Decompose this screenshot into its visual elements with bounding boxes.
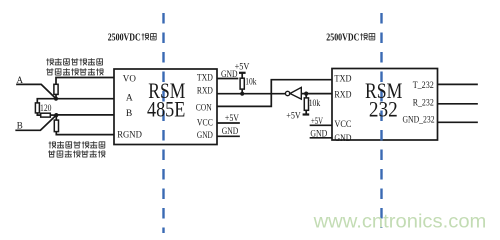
svg-text:+5V: +5V [235, 62, 250, 72]
svg-text:A: A [126, 93, 133, 103]
wire U1 GND stub [217, 135, 239, 137]
svg-text:R_232: R_232 [413, 99, 434, 109]
resistor R3 10k pullup [304, 98, 308, 110]
wire node B to lower bias resistor [55, 115, 57, 120]
note text bottom-left line2 择偏置电阻大小 [48, 150, 105, 157]
svg-text:10k: 10k [309, 98, 321, 108]
wire terminal A lead [17, 84, 56, 98]
wire 120 resistor bottom to series resistor [37, 113, 40, 115]
wire terminal B lead [16, 115, 56, 130]
wire bias resistor to node A junction [55, 94, 57, 98]
isolation dashed line right [380, 13, 382, 228]
resistor 120 termination [35, 103, 39, 113]
svg-text:GND_232: GND_232 [403, 116, 435, 126]
svg-text:RXD: RXD [334, 90, 351, 100]
wire +5V bar to 10k pullup R2 [241, 73, 243, 78]
wire RXD junction to pullup R3 [305, 94, 307, 98]
wire node A to 120 resistor top [37, 99, 56, 103]
svg-text:CON: CON [196, 104, 212, 114]
node A junction dot [54, 97, 58, 101]
svg-text:GND: GND [197, 131, 213, 141]
wire U2 VCC stub to +5V label [311, 124, 333, 126]
isolation dashed line left [162, 13, 164, 233]
wire inverter input to U2 RXD [302, 93, 333, 95]
svg-text:+5V: +5V [286, 111, 301, 121]
RXD pullup junction dot [240, 92, 244, 96]
inverter input junction dot [304, 92, 308, 96]
wire U2 R_232 output [438, 103, 478, 105]
svg-text:232: 232 [369, 97, 398, 122]
wire U1 CON to U2 TXD [217, 80, 332, 107]
wire R3 to +5V bar [305, 110, 307, 114]
svg-text:485E: 485E [147, 97, 185, 122]
inverter U3 bubble [285, 91, 289, 95]
resistor R2 10k pullup [240, 78, 244, 89]
svg-text:120: 120 [40, 103, 52, 113]
svg-text:10k: 10k [245, 77, 257, 87]
svg-text:2500VDC: 2500VDC [326, 32, 359, 43]
wire U1 RXD to inverter output bubble [217, 93, 285, 95]
wire R2 to RXD net junction [241, 89, 243, 94]
svg-text:+5V: +5V [225, 114, 239, 124]
wire U2 GND_232 output [438, 121, 478, 123]
svg-text:TXD: TXD [197, 73, 213, 83]
svg-text:GND: GND [310, 129, 327, 139]
svg-text:A: A [17, 75, 24, 85]
inverter U3 triangle [290, 87, 301, 99]
svg-text:VO: VO [123, 75, 136, 85]
svg-text:T_232: T_232 [413, 81, 434, 91]
svg-text:+5V: +5V [311, 117, 323, 127]
+5V power bar above R2 [239, 72, 246, 74]
svg-text:B: B [126, 109, 132, 119]
wire VO pin of U1 to bias resistor [56, 78, 114, 85]
svg-text:RXD: RXD [197, 87, 213, 97]
svg-text:www.cntronics.com: www.cntronics.com [313, 212, 487, 233]
resistor series on B line [41, 113, 51, 117]
note text top-left line1 根据节点数量选 [46, 58, 102, 65]
svg-text:VCC: VCC [197, 118, 213, 128]
wire node A to U1 pin A [56, 98, 114, 100]
svg-text:B: B [17, 120, 23, 130]
svg-text:GND: GND [222, 127, 239, 137]
op block U2 RSM232 body [332, 69, 438, 141]
wire node B to U1 pin B [56, 114, 114, 116]
svg-text:TXD: TXD [334, 75, 351, 85]
node B junction dot [54, 113, 58, 117]
svg-text:2500VDC: 2500VDC [108, 32, 141, 43]
+5V power bar below R3 [303, 113, 310, 115]
resistor R bias lower (B-RGND) [54, 120, 58, 132]
wire U1 VCC stub to +5V label [217, 122, 239, 124]
label 隔离 left (fake glyphs) [142, 33, 149, 40]
svg-text:GND: GND [334, 134, 351, 144]
wire U2 T_232 output [438, 83, 478, 85]
svg-text:RGND: RGND [117, 130, 142, 140]
resistor R bias upper (VO-A) [54, 84, 58, 94]
wire U2 GND stub [311, 137, 333, 139]
wire lower bias resistor to RGND pin [56, 132, 114, 135]
wire series resistor to node B [50, 114, 56, 116]
label 隔离 right (fake glyphs) [360, 33, 367, 40]
wire U1 TXD pin to GND label [217, 78, 238, 80]
note text bottom-left line1 根据节点数量选 [49, 141, 105, 148]
svg-text:VCC: VCC [334, 120, 351, 130]
op block U1 RSM485E body [114, 69, 217, 145]
note text top-left line2 择偏置电阻大小 [46, 68, 103, 75]
